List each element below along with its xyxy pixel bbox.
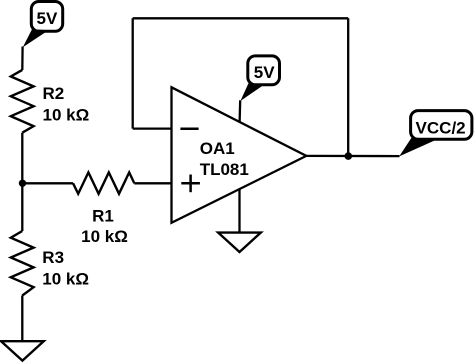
plus input symbol <box>181 182 200 185</box>
svg-text:5V: 5V <box>37 9 58 28</box>
wire node A to R1 <box>22 182 73 184</box>
node A junction dot <box>19 180 26 187</box>
svg-text:5V: 5V <box>254 63 275 82</box>
power flag 5V (top-left net label) <box>23 2 63 48</box>
svg-text:VCC/2: VCC/2 <box>416 118 466 137</box>
wire feedback: inverting input horizontal <box>133 127 172 129</box>
ground (op-amp) <box>218 233 261 252</box>
wire feedback: left vertical <box>132 18 134 128</box>
resistor R1 <box>73 172 134 246</box>
wire node A to R3 <box>21 183 23 231</box>
svg-text:R3: R3 <box>42 248 64 267</box>
wire R3 to ground <box>21 296 23 342</box>
wire 5V flag to R2 <box>21 47 24 71</box>
svg-text:10 kΩ: 10 kΩ <box>42 269 89 288</box>
wire R1 to op-amp + input <box>134 182 171 184</box>
node B junction dot (output/feedback) <box>345 152 353 160</box>
svg-text:R1: R1 <box>92 206 114 225</box>
wire feedback: right vertical <box>347 18 349 156</box>
wire op-amp V- pin to ground <box>238 189 240 232</box>
svg-text:OA1: OA1 <box>200 139 235 158</box>
wire 5V flag to op-amp top edge <box>238 100 241 122</box>
resistor R2 <box>11 70 89 133</box>
wire output <box>306 155 399 158</box>
svg-text:10 kΩ: 10 kΩ <box>81 227 128 246</box>
wire R2 to node A <box>21 133 23 184</box>
resistor R3 <box>11 231 89 296</box>
power flag 5V (op-amp V+) <box>240 56 279 101</box>
net flag VCC/2 <box>399 111 472 157</box>
ground (bottom-left) <box>1 341 44 360</box>
minus input symbol <box>180 127 198 130</box>
svg-text:10 kΩ: 10 kΩ <box>43 105 90 124</box>
svg-text:R2: R2 <box>43 84 65 103</box>
svg-text:TL081: TL081 <box>200 160 249 179</box>
wire feedback: top horizontal <box>133 17 349 19</box>
op-amp OA1 TL081 <box>172 87 307 223</box>
